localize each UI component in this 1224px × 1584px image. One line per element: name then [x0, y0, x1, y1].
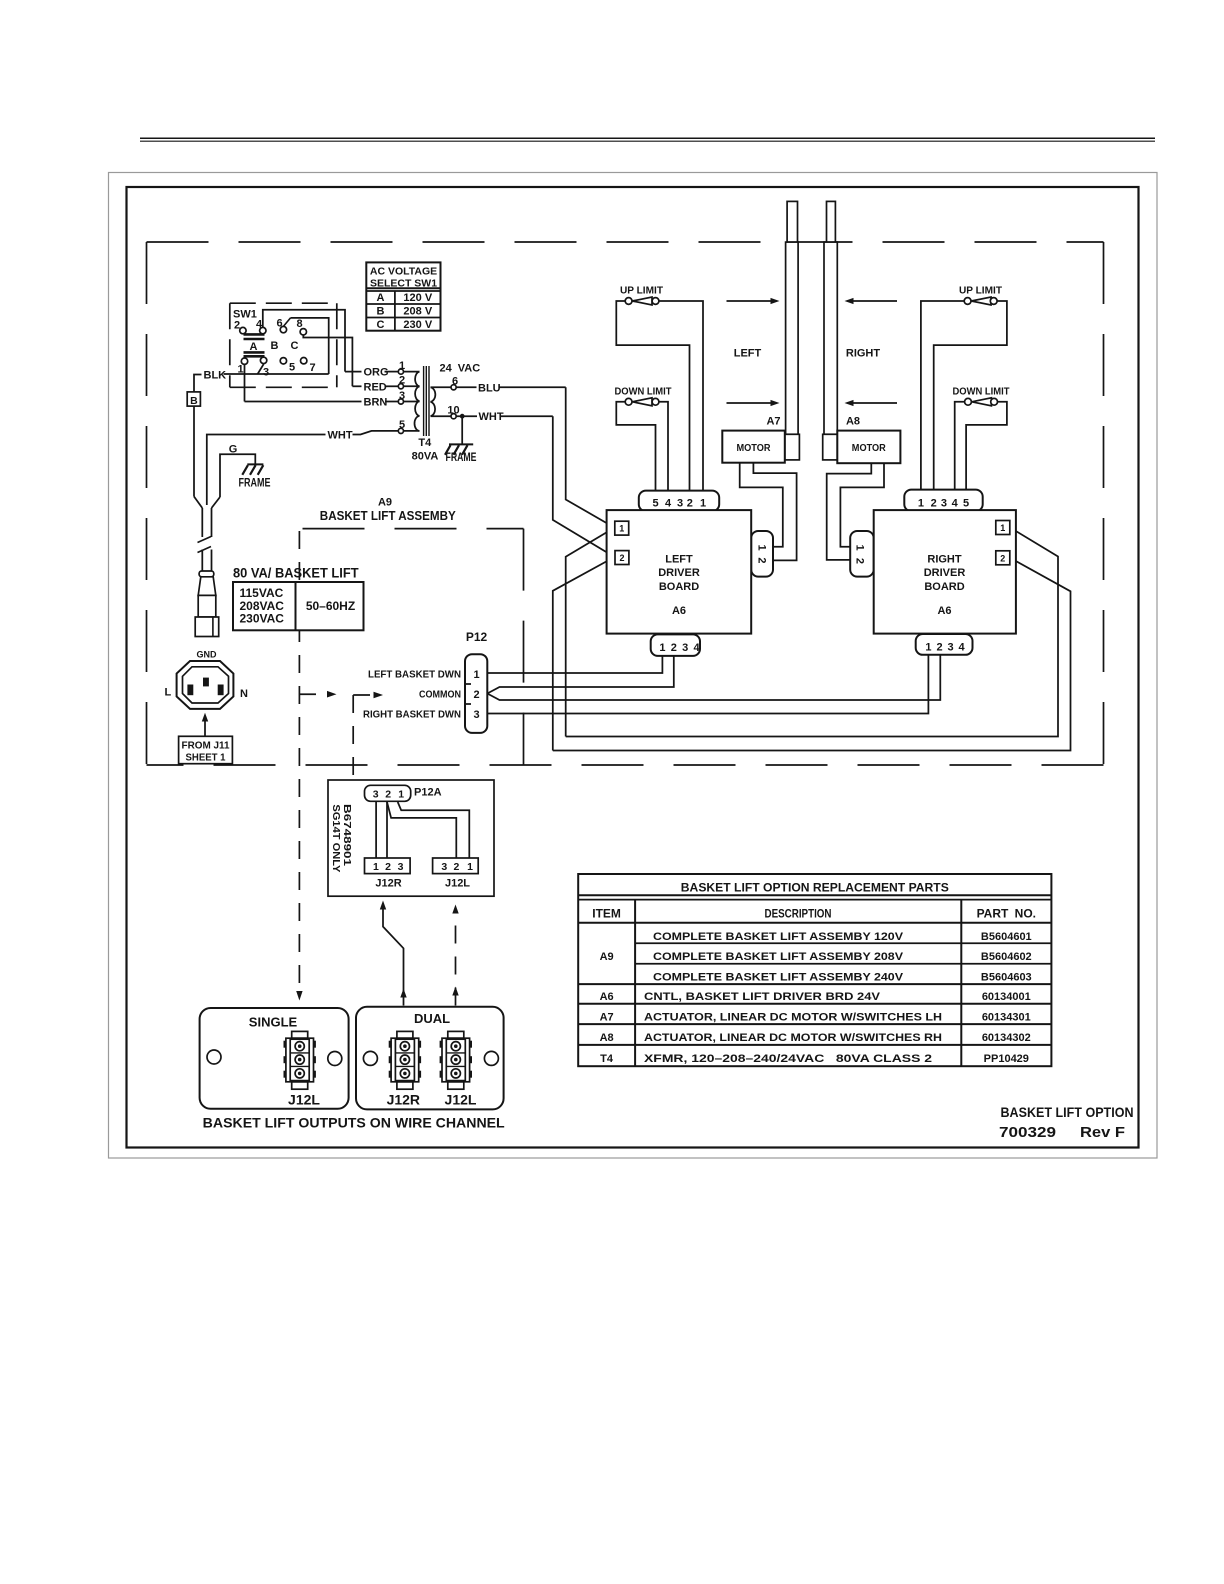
- svg-text:2: 2: [931, 498, 937, 510]
- svg-text:RIGHT BASKET DWN: RIGHT BASKET DWN: [363, 709, 461, 721]
- svg-text:C: C: [377, 319, 385, 331]
- svg-text:J12R: J12R: [387, 1092, 420, 1108]
- wire SW1 pin8 to RED: [303, 335, 352, 386]
- svg-text:230VAC: 230VAC: [240, 611, 285, 625]
- outer sheet border: [109, 173, 1158, 1159]
- arrow from J11 to inlet: [202, 713, 208, 737]
- svg-text:N: N: [240, 688, 248, 700]
- svg-text:3: 3: [947, 642, 953, 654]
- svg-text:C: C: [291, 340, 299, 352]
- IEC inlet GND: [165, 650, 249, 709]
- wire 24V run to right terminal 1: [566, 528, 1058, 737]
- wire P12 pin3 to right board bottom pin 1: [487, 655, 928, 714]
- svg-text:DUAL: DUAL: [414, 1011, 450, 1026]
- connector P12A: [365, 785, 442, 801]
- svg-text:2: 2: [687, 498, 693, 510]
- svg-text:ITEM: ITEM: [592, 907, 621, 921]
- svg-text:J12L: J12L: [445, 1092, 477, 1108]
- svg-text:5: 5: [963, 498, 969, 510]
- svg-text:DOWN LIMIT: DOWN LIMIT: [615, 386, 673, 398]
- svg-text:1: 1: [918, 498, 924, 510]
- svg-text:7: 7: [309, 362, 315, 374]
- svg-text:A9: A9: [378, 497, 392, 509]
- title 700329 Rev F: [999, 1124, 1125, 1141]
- 80VA basket lift rating table: [233, 565, 364, 631]
- svg-text:A9: A9: [600, 951, 614, 963]
- svg-text:1: 1: [700, 498, 706, 510]
- svg-text:ACTUATOR, LINEAR DC MOTOR W/SW: ACTUATOR, LINEAR DC MOTOR W/SWITCHES LH: [644, 1012, 942, 1024]
- wire right board top pin 5 from down limit return: [966, 402, 1007, 491]
- wire ORG: [345, 367, 398, 379]
- svg-text:LEFT: LEFT: [734, 348, 762, 360]
- left board bottom connector: [651, 634, 701, 656]
- svg-text:J12L: J12L: [445, 878, 470, 890]
- wire right motor lead 2: [827, 463, 872, 560]
- svg-text:UP LIMIT: UP LIMIT: [959, 285, 1003, 297]
- left driver board A6: [607, 510, 752, 633]
- AC voltage select table: [366, 262, 440, 331]
- power cord: [194, 497, 220, 637]
- svg-text:BASKET LIFT OPTION: BASKET LIFT OPTION: [1001, 1104, 1134, 1120]
- svg-text:4: 4: [665, 498, 672, 510]
- dashed line to P12A box: [352, 695, 354, 780]
- DUAL output plate: [356, 1007, 504, 1110]
- dashed line to SINGLE J12L output: [296, 531, 302, 1001]
- connector jack J12L on SINGLE plate: [284, 1031, 316, 1089]
- connector J12R: [365, 858, 411, 890]
- wire right board top pin 2 from up limit return: [934, 301, 1007, 491]
- transformer T4: [398, 360, 480, 462]
- svg-text:BOARD: BOARD: [924, 581, 964, 593]
- connector jack J12L on DUAL plate: [440, 1031, 472, 1089]
- wire WHT vertical to left terminal 2 and down: [553, 416, 615, 750]
- wire BLU vertical to left terminal 1 and down: [566, 387, 615, 736]
- wire SW1 pin4 to ORG: [263, 310, 345, 372]
- svg-text:60134001: 60134001: [982, 991, 1031, 1003]
- FROM J11 SHEET 1 box: [179, 736, 233, 763]
- svg-text:LEFT: LEFT: [665, 554, 693, 566]
- wire P12A pin2 to J12R pin2: [386, 801, 388, 858]
- svg-text:AC VOLTAGE: AC VOLTAGE: [370, 266, 437, 278]
- wire right board top pin 4 to down limit: [955, 402, 965, 491]
- svg-text:DESCRIPTION: DESCRIPTION: [765, 907, 832, 921]
- wire BLU: [456, 382, 566, 394]
- motion arrow right-lower: [845, 400, 898, 406]
- svg-text:A: A: [377, 292, 385, 304]
- svg-text:CNTL, BASKET LIFT DRIVER BRD 2: CNTL, BASKET LIFT DRIVER BRD 24V: [644, 991, 881, 1003]
- svg-text:COMPLETE BASKET LIFT ASSEMBY 2: COMPLETE BASKET LIFT ASSEMBY 208V: [653, 951, 904, 963]
- svg-text:T4: T4: [418, 437, 432, 449]
- svg-text:3: 3: [473, 709, 479, 721]
- svg-text:BLU: BLU: [478, 382, 501, 394]
- wire WHT primary: [207, 430, 398, 506]
- wire BLK below B box to cord: [193, 406, 195, 496]
- wire left motor lead 2: [753, 463, 796, 561]
- svg-text:B5604602: B5604602: [981, 951, 1032, 963]
- svg-text:60134302: 60134302: [982, 1032, 1031, 1044]
- ground frame (left): [239, 464, 271, 489]
- connector P12: [465, 630, 487, 733]
- SINGLE output plate: [200, 1008, 349, 1109]
- svg-text:1: 1: [398, 788, 404, 800]
- svg-text:80 VA/ BASKET LIFT: 80 VA/ BASKET LIFT: [233, 565, 359, 581]
- down limit switch (right): [953, 386, 1011, 406]
- junction dot at transformer frame tap: [460, 414, 465, 419]
- svg-text:2: 2: [619, 553, 624, 563]
- svg-text:ACTUATOR, LINEAR DC MOTOR W/SW: ACTUATOR, LINEAR DC MOTOR W/SWITCHES RH: [644, 1032, 942, 1044]
- svg-text:A6: A6: [672, 605, 686, 617]
- wire BLK: [194, 364, 329, 392]
- svg-text:A8: A8: [600, 1032, 614, 1044]
- arrow dual J12R to P12A: [380, 901, 407, 1006]
- motor A8 box: [837, 431, 900, 464]
- wire G to frame ground: [220, 444, 255, 498]
- svg-text:P12A: P12A: [414, 787, 442, 799]
- wire right board top pin 1 to up limit: [921, 301, 964, 491]
- svg-text:COMPLETE BASKET LIFT ASSEMBY 2: COMPLETE BASKET LIFT ASSEMBY 240V: [653, 972, 904, 984]
- right board top connector: [904, 490, 982, 512]
- inner sheet border: [127, 187, 1139, 1148]
- svg-text:SG14T ONLY: SG14T ONLY: [330, 804, 342, 872]
- svg-text:B5604601: B5604601: [981, 931, 1032, 943]
- wire P12A pin3 to J12R pin1: [375, 801, 377, 858]
- left board top connector: [639, 491, 719, 512]
- right board terminal 2: [996, 551, 1010, 565]
- down limit switch (left): [615, 386, 673, 406]
- svg-text:208 V: 208 V: [403, 306, 432, 318]
- svg-text:B: B: [190, 395, 198, 407]
- svg-text:1: 1: [854, 545, 866, 551]
- wire P12A pin1 to J12L pin1: [398, 802, 470, 858]
- svg-text:BOARD: BOARD: [659, 581, 699, 593]
- svg-text:5: 5: [289, 362, 295, 374]
- wire SW1 pin1 to BRN: [244, 364, 246, 401]
- svg-text:XFMR, 120–208–240/24VAC 80VA: XFMR, 120–208–240/24VAC 80VA CLASS 2: [644, 1053, 932, 1065]
- svg-text:1: 1: [756, 545, 768, 551]
- connector J12L: [433, 858, 479, 890]
- wire RED: [352, 381, 398, 393]
- svg-text:A7: A7: [766, 416, 780, 428]
- svg-text:3: 3: [682, 642, 688, 654]
- svg-text:700329: 700329: [999, 1124, 1056, 1141]
- svg-text:SHEET 1: SHEET 1: [186, 752, 226, 764]
- svg-text:RIGHT: RIGHT: [927, 554, 962, 566]
- svg-text:1: 1: [619, 524, 624, 534]
- svg-text:DRIVER: DRIVER: [658, 567, 700, 579]
- svg-text:230 V: 230 V: [403, 319, 432, 331]
- svg-text:1: 1: [1000, 523, 1005, 533]
- left board terminal 1: [615, 521, 629, 535]
- svg-text:UP LIMIT: UP LIMIT: [620, 285, 664, 297]
- svg-text:2: 2: [385, 861, 391, 873]
- A9 assembly label: [320, 497, 456, 524]
- svg-text:DRIVER: DRIVER: [924, 567, 966, 579]
- parts replacement table: [578, 874, 1051, 1066]
- wire left motor lead 1: [740, 463, 783, 547]
- svg-text:A6: A6: [937, 605, 951, 617]
- svg-text:4: 4: [952, 498, 959, 510]
- SW1 dashed box: [230, 303, 337, 387]
- svg-text:4: 4: [694, 642, 701, 654]
- svg-text:PP10429: PP10429: [984, 1053, 1029, 1065]
- svg-text:SINGLE: SINGLE: [249, 1015, 298, 1030]
- svg-text:MOTOR: MOTOR: [852, 442, 886, 454]
- A9 assembly dashed boundary box: [147, 242, 1104, 765]
- svg-text:COMMON: COMMON: [419, 689, 461, 701]
- svg-text:2: 2: [756, 557, 768, 563]
- svg-text:2: 2: [854, 558, 866, 564]
- wire left board top pin 1 to up limit: [659, 301, 703, 491]
- left board side connector: [751, 531, 773, 577]
- wire common to left board bottom pin 2: [487, 656, 674, 694]
- ground frame (transformer): [445, 416, 477, 464]
- svg-text:1: 1: [925, 642, 931, 654]
- motor A7 box: [722, 431, 785, 463]
- svg-text:3: 3: [941, 498, 947, 510]
- svg-text:A7: A7: [600, 1012, 614, 1024]
- svg-text:L: L: [165, 687, 172, 699]
- right driver board A6: [874, 510, 1016, 633]
- svg-text:4: 4: [959, 642, 966, 654]
- motion arrow left-upper: [727, 298, 780, 304]
- svg-text:BRN: BRN: [364, 397, 388, 409]
- svg-text:DOWN LIMIT: DOWN LIMIT: [953, 386, 1011, 398]
- svg-text:B: B: [377, 306, 385, 318]
- svg-text:FROM J11: FROM J11: [182, 740, 230, 752]
- wire right motor lead 1: [840, 463, 884, 547]
- page top rule: [140, 138, 1155, 141]
- motion arrow right-upper: [845, 298, 898, 304]
- svg-text:5: 5: [652, 498, 658, 510]
- svg-text:B: B: [271, 340, 279, 352]
- svg-text:10: 10: [447, 404, 459, 416]
- actuator A8 rod and tube: [823, 201, 838, 460]
- svg-text:BASKET LIFT OUTPUTS ON WIRE CH: BASKET LIFT OUTPUTS ON WIRE CHANNEL: [203, 1115, 505, 1131]
- wire SW1 pin6 arm to BLK common: [291, 318, 329, 374]
- wire 24V run to right terminal 2: [553, 558, 1071, 751]
- svg-text:B5604603: B5604603: [981, 972, 1032, 984]
- right board bottom connector: [916, 634, 973, 655]
- svg-text:24 VAC: 24 VAC: [440, 362, 481, 374]
- svg-text:50–60HZ: 50–60HZ: [306, 599, 355, 613]
- wire BRN: [245, 397, 399, 409]
- label B6748901 SG14T ONLY (rotated): [330, 804, 353, 872]
- wire left board top pin 5 from down limit return: [616, 402, 655, 491]
- svg-text:COMPLETE BASKET LIFT ASSEMBY 1: COMPLETE BASKET LIFT ASSEMBY 120V: [653, 931, 904, 943]
- up limit switch (right): [959, 285, 1003, 306]
- connector jack J12R on DUAL plate: [389, 1031, 421, 1089]
- svg-text:J12R: J12R: [375, 878, 401, 890]
- svg-text:3: 3: [263, 367, 269, 379]
- svg-text:BLK: BLK: [204, 370, 227, 382]
- svg-text:2: 2: [385, 788, 391, 800]
- switch SW1: [233, 309, 316, 379]
- svg-text:P12: P12: [466, 630, 488, 644]
- svg-text:BASKET LIFT OPTION REPLACEMENT: BASKET LIFT OPTION REPLACEMENT PARTS: [681, 881, 949, 895]
- svg-text:SELECT SW1: SELECT SW1: [370, 278, 437, 290]
- svg-text:3: 3: [677, 498, 683, 510]
- svg-text:WHT: WHT: [328, 430, 353, 442]
- svg-text:WHT: WHT: [479, 411, 504, 423]
- svg-text:BASKET LIFT ASSEMBY: BASKET LIFT ASSEMBY: [320, 508, 456, 523]
- svg-text:1: 1: [659, 642, 665, 654]
- svg-text:J12L: J12L: [288, 1092, 320, 1108]
- svg-text:3: 3: [398, 861, 404, 873]
- svg-text:FRAME: FRAME: [446, 450, 477, 464]
- svg-text:3: 3: [373, 788, 379, 800]
- wire WHT secondary: [456, 411, 553, 423]
- svg-text:2: 2: [1000, 553, 1005, 563]
- wire common to right board bottom pin 2: [487, 655, 940, 700]
- arrow dual J12L to P12A (dashed): [452, 905, 458, 1006]
- motion arrow left-lower: [727, 400, 780, 406]
- svg-text:PART NO.: PART NO.: [977, 907, 1036, 921]
- svg-text:RIGHT: RIGHT: [846, 348, 881, 360]
- up limit switch (left): [620, 285, 664, 306]
- svg-text:80VA: 80VA: [412, 450, 439, 462]
- actuator A7 rod and tube: [785, 201, 800, 460]
- tag B box: [187, 392, 200, 407]
- svg-text:2: 2: [473, 689, 479, 701]
- svg-text:1: 1: [473, 669, 479, 681]
- svg-text:120 V: 120 V: [403, 292, 432, 304]
- svg-text:GND: GND: [197, 650, 218, 660]
- P12A junction box: [328, 780, 494, 896]
- dashed boundary below A9 label: [303, 529, 524, 765]
- svg-text:2: 2: [671, 642, 677, 654]
- svg-text:RED: RED: [364, 381, 387, 393]
- left board terminal 2: [615, 551, 629, 565]
- right board terminal 1: [996, 521, 1010, 535]
- dashed arrow toward P12 (right): [353, 692, 383, 699]
- dashed arrow toward P12 (left): [299, 691, 336, 698]
- wire P12A pin2 branch to J12L pin2: [387, 802, 456, 858]
- wire left board top pin 4 to down limit: [659, 402, 668, 491]
- svg-text:Rev F: Rev F: [1080, 1124, 1125, 1141]
- svg-text:1: 1: [373, 861, 379, 873]
- svg-text:ORG: ORG: [364, 367, 389, 379]
- svg-text:A8: A8: [846, 416, 860, 428]
- wire left board top pin 2 from up limit return: [616, 301, 689, 491]
- svg-text:2: 2: [453, 861, 459, 873]
- right board side connector: [850, 531, 874, 577]
- svg-text:3: 3: [441, 861, 447, 873]
- svg-text:LEFT BASKET DWN: LEFT BASKET DWN: [368, 669, 461, 681]
- wire P12 pin1 to left board bottom pin 1: [487, 656, 662, 673]
- svg-text:T4: T4: [600, 1053, 614, 1065]
- svg-text:FRAME: FRAME: [239, 476, 271, 490]
- svg-text:60134301: 60134301: [982, 1012, 1031, 1024]
- svg-text:1: 1: [467, 861, 473, 873]
- svg-text:MOTOR: MOTOR: [737, 442, 771, 454]
- svg-text:A6: A6: [600, 991, 614, 1003]
- svg-text:2: 2: [936, 642, 942, 654]
- svg-text:6: 6: [452, 375, 458, 387]
